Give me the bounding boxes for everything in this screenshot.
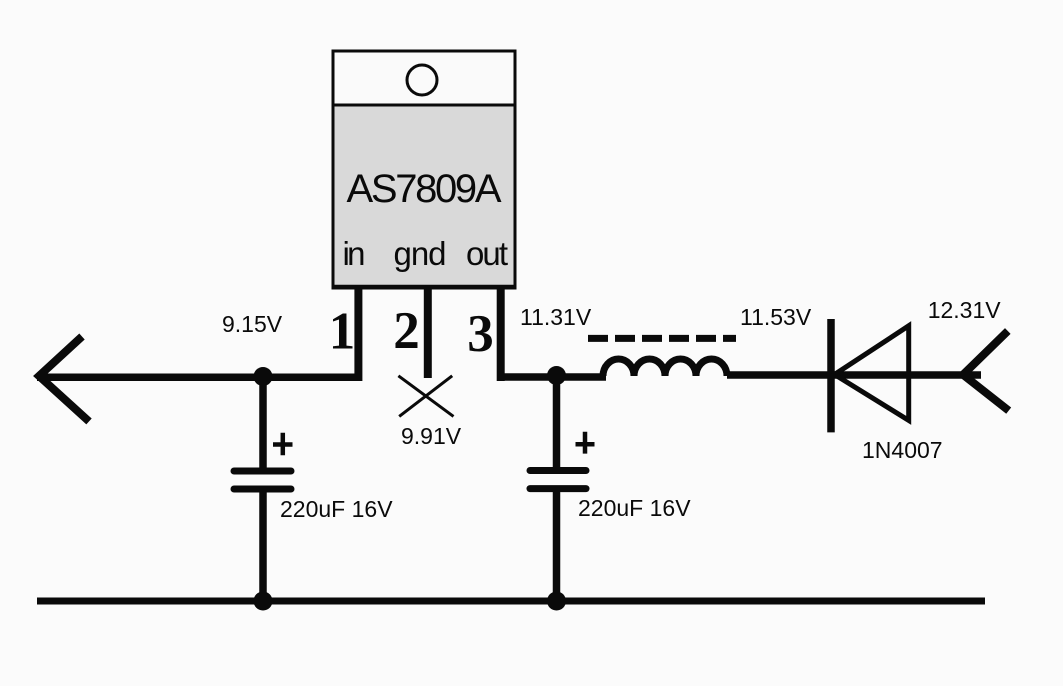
wire output rail right segment — [727, 371, 981, 379]
wire capacitor C2 top — [553, 377, 561, 470]
diode D1 cathode bar — [827, 319, 835, 432]
svg-text:11.31V: 11.31V — [520, 304, 592, 330]
wire output rail left segment — [497, 373, 606, 381]
svg-text:in: in — [343, 235, 366, 272]
U1 body bottom edge — [332, 285, 517, 290]
node input junction — [254, 367, 273, 386]
U1 mounting hole — [407, 65, 437, 95]
capacitor C2 bottom plate — [530, 485, 586, 492]
svg-text:1: 1 — [329, 303, 356, 361]
svg-text:2: 2 — [393, 302, 420, 360]
svg-text:out: out — [466, 235, 508, 272]
svg-text:AS7809A: AS7809A — [347, 167, 502, 211]
wire capacitor C1 top — [259, 377, 267, 470]
input connector arrow (left) — [39, 337, 89, 422]
inductor L1 dashed core line — [588, 335, 736, 342]
svg-text:gnd: gnd — [394, 235, 447, 272]
U1 pin 1 lead — [354, 288, 362, 381]
wire input rail — [37, 374, 362, 382]
svg-text:11.53V: 11.53V — [740, 304, 812, 330]
voltage regulator U1 package tab — [333, 51, 515, 105]
svg-text:220uF 16V: 220uF 16V — [280, 496, 393, 522]
svg-text:3: 3 — [467, 305, 494, 363]
capacitor C1 top plate — [234, 468, 291, 475]
svg-text:9.15V: 9.15V — [222, 311, 283, 337]
diode D1 triangle — [835, 326, 909, 421]
wire capacitor C2 bottom — [553, 491, 561, 601]
U1 pin 2 lead — [424, 288, 432, 378]
node ground junction C1 — [254, 592, 273, 611]
capacitor C1 bottom plate — [234, 486, 291, 493]
inductor L1 winding — [603, 359, 727, 376]
capacitor C2 top plate — [530, 467, 586, 474]
svg-text:9.91V: 9.91V — [401, 423, 462, 449]
capacitor C1 plus sign — [273, 433, 293, 455]
node ground junction C2 — [547, 592, 566, 611]
wire ground rail — [37, 598, 985, 605]
voltage regulator U1 body — [333, 105, 515, 288]
node output junction — [547, 366, 566, 385]
U1 pin 3 lead — [497, 288, 505, 381]
svg-text:1N4007: 1N4007 — [862, 437, 943, 463]
wire capacitor C1 bottom — [259, 491, 267, 601]
capacitor C2 plus sign — [576, 432, 595, 454]
svg-text:220uF 16V: 220uF 16V — [578, 495, 691, 521]
source connector arrow (right) — [963, 331, 1009, 411]
open pin 2 cross mark — [398, 376, 453, 417]
svg-text:12.31V: 12.31V — [928, 297, 1002, 323]
